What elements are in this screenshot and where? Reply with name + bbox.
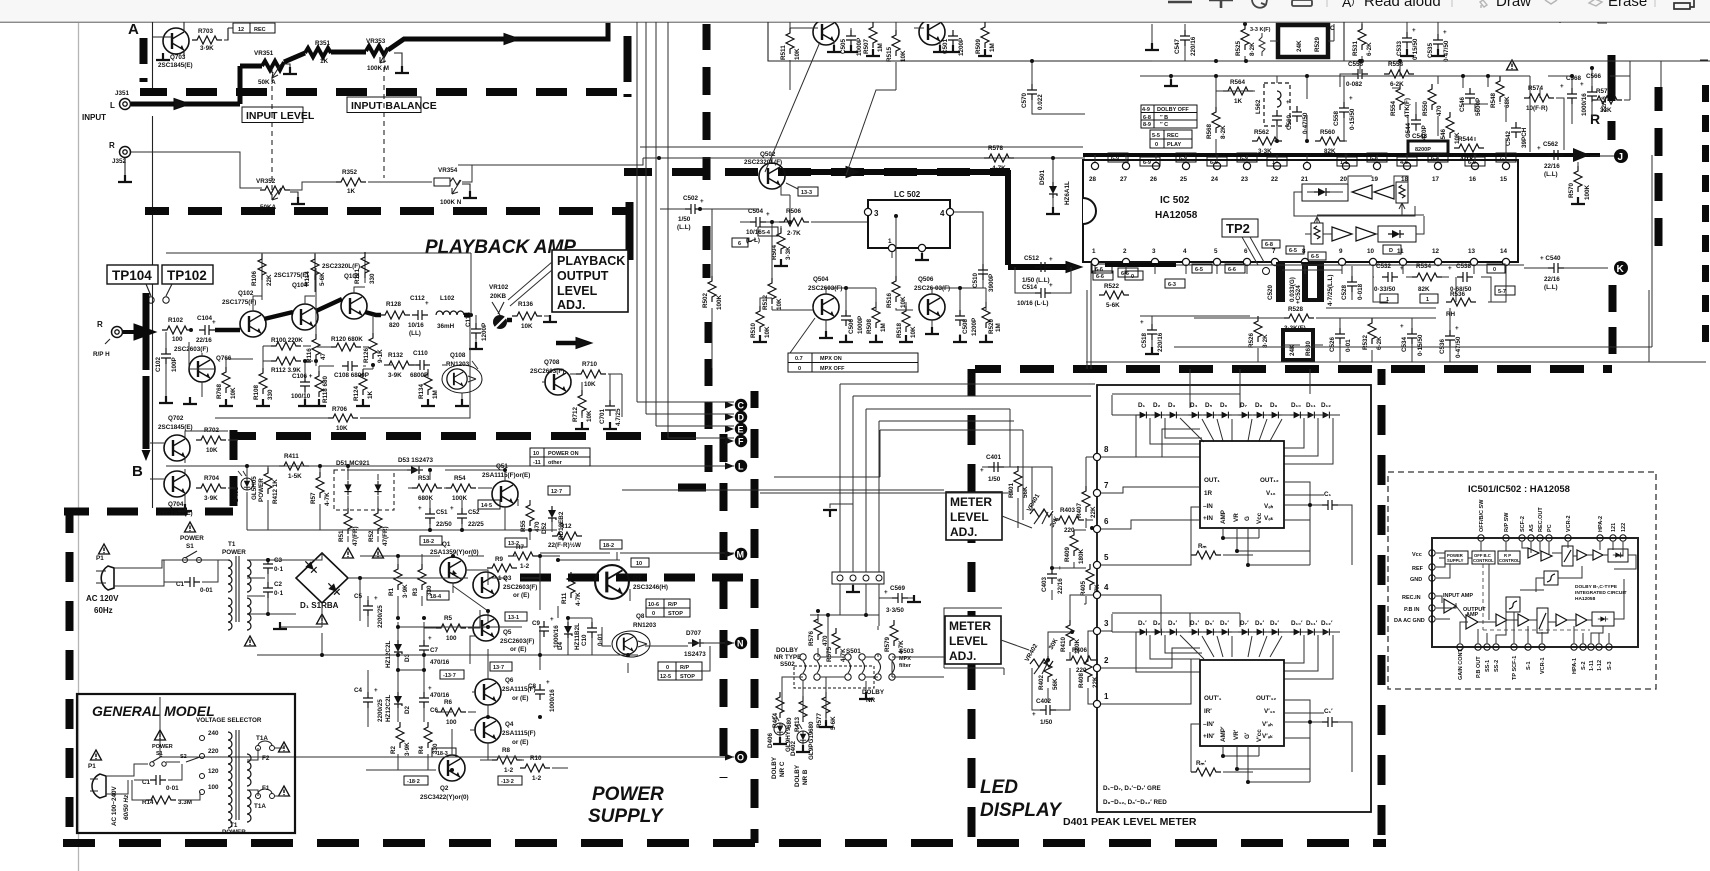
registration L mark top right: [1598, 15, 1607, 23]
resistor R544: [1454, 136, 1484, 163]
svg-text:R528: R528: [1288, 306, 1304, 313]
svg-text:J351: J351: [115, 90, 130, 97]
svg-text:Q704: Q704: [168, 501, 184, 508]
resistor R126: [363, 333, 384, 363]
wire thick signal L input: [131, 66, 262, 110]
svg-text:R/P SW: R/P SW: [1504, 512, 1510, 532]
node M: [725, 548, 747, 560]
svg-text:5: 5: [1104, 553, 1109, 562]
tag 5-7: [1495, 286, 1515, 295]
svg-text:10K: 10K: [910, 326, 917, 338]
svg-text:M: M: [737, 550, 745, 560]
svg-text:10K: 10K: [794, 48, 801, 60]
separator: [1451, 0, 1453, 7]
svg-text:VR′: VR′: [1233, 729, 1240, 740]
svg-text:-18·2: -18·2: [407, 779, 420, 785]
svg-text:Q6: Q6: [505, 677, 514, 684]
svg-text:2SC3246(H): 2SC3246(H): [633, 584, 668, 591]
resistor R118: [315, 371, 329, 403]
wire to node O: [160, 697, 734, 757]
svg-text:2: 2: [1104, 656, 1109, 665]
svg-text:R506: R506: [786, 208, 802, 215]
svg-text:+: +: [884, 589, 888, 596]
svg-text:(L.L): (L.L): [1544, 171, 1558, 178]
svg-text:METER: METER: [949, 619, 991, 633]
svg-text:IC501/IC502 : HA12058: IC501/IC502 : HA12058: [1468, 484, 1570, 495]
svg-text:1M: 1M: [989, 43, 996, 52]
svg-text:122: 122: [1621, 523, 1627, 532]
svg-text:0·1: 0·1: [274, 590, 284, 597]
wire to node N: [688, 642, 734, 644]
svg-text:IR′: IR′: [1204, 708, 1212, 715]
wire meter long leads: [622, 490, 1013, 675]
svg-text:R502: R502: [702, 292, 709, 308]
wire thick: [284, 53, 305, 62]
wire: [290, 182, 336, 190]
svg-text:7: 7: [1104, 481, 1109, 490]
svg-text:6-6: 6-6: [1095, 267, 1103, 273]
resistor R408: [1078, 656, 1099, 688]
capacitor C505: [840, 28, 863, 56]
svg-text:R10: R10: [530, 755, 542, 762]
resistor R132: [384, 352, 414, 379]
transformer T1 general: [222, 730, 251, 836]
svg-text:VR102: VR102: [489, 284, 509, 291]
svg-text:VCR-1: VCR-1: [1540, 657, 1546, 674]
svg-text:G′: G′: [1244, 732, 1251, 739]
connector strip: [832, 572, 884, 584]
svg-text:330: 330: [369, 273, 376, 284]
svg-text:C532: C532: [1376, 263, 1392, 270]
svg-text:18-4: 18-4: [430, 594, 442, 600]
svg-text:1-12: 1-12: [1597, 660, 1603, 671]
svg-text:R525: R525: [1235, 40, 1242, 56]
svg-text:9: 9: [1339, 248, 1343, 255]
svg-text:PLAY: PLAY: [1167, 142, 1181, 148]
capacitor C1 meter: [1284, 491, 1352, 565]
ground stub VR352: [290, 192, 305, 204]
svg-text:22/16: 22/16: [1544, 276, 1560, 283]
label box TP104: [107, 265, 158, 303]
wires general model: [106, 748, 284, 800]
svg-text:Vcc: Vcc: [1412, 552, 1422, 558]
potentiometer VR352: [256, 178, 290, 211]
svg-text:Q708: Q708: [544, 359, 560, 366]
svg-text:3·9K: 3·9K: [200, 45, 214, 52]
svg-text:HZ11B2L: HZ11B2L: [574, 623, 581, 650]
wires q504 q506: [760, 216, 986, 340]
svg-text:AC 100~240V: AC 100~240V: [111, 785, 118, 826]
svg-text:K: K: [1617, 264, 1625, 275]
svg-text:24K: 24K: [1296, 40, 1303, 52]
svg-text:V′₁₆: V′₁₆: [1264, 708, 1275, 715]
svg-text:10K: 10K: [776, 298, 783, 310]
svg-text:13-1: 13-1: [508, 615, 519, 621]
capacitor C546: [1459, 88, 1482, 116]
wire to right exit: [462, 165, 635, 182]
svg-text:0-01: 0-01: [200, 587, 213, 594]
svg-text:1S2473: 1S2473: [684, 651, 706, 658]
svg-text:C104: C104: [197, 315, 213, 322]
svg-text:(L·L): (L·L): [746, 237, 760, 244]
svg-text:C558: C558: [1333, 110, 1340, 126]
svg-text:TP102: TP102: [167, 268, 207, 283]
svg-text:D₁₁′: D₁₁′: [1306, 620, 1318, 627]
svg-text:0: 0: [1493, 267, 1496, 273]
svg-text:121: 121: [1611, 523, 1617, 532]
svg-text:33K: 33K: [1600, 107, 1612, 114]
resistor R536b: [1446, 291, 1476, 306]
transistor Q108 RN1203: [442, 352, 482, 393]
svg-text:120: 120: [208, 768, 219, 775]
svg-text:22(F·R)½W: 22(F·R)½W: [548, 541, 581, 549]
svg-text:2SC2603(F): 2SC2603(F): [500, 638, 534, 645]
wire R channel input: [131, 152, 262, 188]
svg-text:R52: R52: [368, 530, 375, 542]
svg-text:R710: R710: [582, 361, 598, 368]
dashed border: far right edge x1705: [1702, 85, 1709, 350]
svg-text:NR C: NR C: [779, 761, 786, 777]
resistor R116: [306, 334, 327, 363]
svg-text:R526: R526: [1248, 332, 1255, 348]
svg-text:G: G: [1244, 516, 1251, 521]
label box METER LEVEL ADJ 1: [946, 492, 1032, 540]
svg-text:0·1: 0·1: [274, 566, 284, 573]
svg-text:HA12058: HA12058: [1155, 210, 1198, 221]
svg-text:Q102: Q102: [238, 290, 254, 297]
capacitor C556: [1346, 61, 1368, 88]
svg-text:HPA-1: HPA-1: [1572, 658, 1578, 674]
inset bottom amp triangles: [1496, 608, 1614, 633]
svg-text:S503: S503: [899, 648, 914, 655]
capacitor C108: [334, 361, 369, 379]
svg-text:Q703: Q703: [170, 54, 186, 61]
wires into led box top: [1087, 262, 1340, 632]
fit page icon: [1292, 0, 1312, 6]
resistor R704: [196, 475, 226, 502]
junction dots forest: [1358, 59, 1362, 63]
svg-text:INPUT: INPUT: [82, 113, 106, 122]
svg-text:C110: C110: [413, 350, 428, 357]
svg-text:8-2K: 8-2K: [1220, 125, 1227, 139]
inset off bc control block: [1472, 551, 1495, 564]
node C: [725, 399, 747, 411]
dashed border: power supply y511: [64, 508, 233, 516]
svg-text:R412 1K: R412 1K: [272, 479, 279, 504]
top rail playback: [166, 253, 471, 313]
tag 6-6: [1225, 264, 1245, 273]
wire bus lines y147 y158: [458, 147, 1085, 165]
svg-text:10K: 10K: [336, 425, 348, 432]
resistor R518: [896, 306, 917, 338]
svg-text:C8: C8: [528, 683, 537, 690]
wires meter2: [1032, 595, 1098, 710]
svg-text:1M: 1M: [432, 390, 439, 399]
svg-text:R5: R5: [444, 615, 453, 622]
tag 0 right: [1487, 264, 1505, 273]
capacitor C114: [465, 312, 488, 349]
svg-text:D402: D402: [790, 740, 797, 756]
resistor R413: [794, 696, 815, 732]
svg-text:R578: R578: [988, 145, 1004, 152]
svg-text:D₁~D₇, D₁′~D₇′ GRE: D₁~D₇, D₁′~D₇′ GRE: [1103, 785, 1161, 792]
svg-text:D4: D4: [557, 641, 564, 650]
dark box 24K R630: [1283, 330, 1313, 360]
svg-text:10-6: 10-6: [648, 602, 659, 608]
svg-text:680: 680: [808, 721, 815, 732]
dashed border: power supply top y436: [233, 432, 706, 440]
capacitor C52: [450, 505, 484, 528]
wire thick out arrow: [464, 315, 592, 349]
potentiometer VR401: [1026, 492, 1061, 529]
svg-text:S-1: S-1: [1526, 661, 1532, 670]
svg-text:5-7: 5-7: [1498, 289, 1506, 295]
svg-text:V₁₆: V₁₆: [1266, 490, 1276, 497]
svg-text:1/50: 1/50: [678, 216, 691, 223]
svg-text:Q506: Q506: [918, 276, 934, 283]
svg-text:LEVEL: LEVEL: [950, 510, 989, 524]
svg-text:C520: C520: [1267, 284, 1274, 300]
svg-text:12: 12: [1432, 248, 1440, 255]
svg-text:180K: 180K: [1078, 548, 1085, 564]
svg-text:100: 100: [446, 635, 457, 642]
capacitor C401: [980, 454, 1018, 483]
capacitor C5: [354, 593, 384, 628]
resistor R574b: [1524, 85, 1554, 112]
svg-text:R120 680K: R120 680K: [331, 336, 363, 343]
svg-text:7: 7: [1272, 248, 1276, 255]
svg-text:LEVEL: LEVEL: [557, 284, 598, 298]
wire: [368, 181, 432, 183]
capacitor C502: [677, 195, 704, 231]
capacitor C9: [532, 616, 560, 648]
resistor R106: [251, 254, 273, 286]
svg-text:GL5H05: GL5H05: [251, 476, 258, 500]
jack J351 input L: [110, 90, 131, 110]
svg-text:R577: R577: [816, 712, 823, 728]
svg-text:C403: C403: [1041, 576, 1048, 592]
svg-text:AMP: AMP: [1466, 612, 1479, 618]
svg-text:D₁₂: D₁₂: [1321, 402, 1331, 409]
svg-text:S-2: S-2: [1581, 661, 1587, 670]
wire thick K bus under IC: [1105, 263, 1176, 267]
svg-text:D₃′: D₃′: [1168, 620, 1177, 627]
svg-text:22K: 22K: [266, 274, 273, 286]
capacitor C4: [354, 687, 384, 722]
oscillator transistor Q510: [914, 15, 945, 49]
svg-text:1-11: 1-11: [1589, 660, 1595, 671]
svg-text:RH: RH: [1446, 311, 1456, 318]
svg-text:1K: 1K: [1234, 98, 1243, 105]
svg-text:10/16: 10/16: [408, 322, 424, 329]
resistor R576: [808, 614, 829, 646]
dashed border: bottom y843: [63, 839, 1386, 847]
tag 13-2: [505, 538, 527, 547]
zoom-out icon: [1168, 1, 1192, 4]
junction dots dolby: [826, 613, 830, 617]
svg-text:F1: F1: [262, 785, 270, 792]
svg-text:F2: F2: [262, 755, 270, 762]
svg-text:D₁: D₁: [1138, 402, 1146, 409]
svg-text:R53: R53: [418, 475, 430, 482]
svg-text:POWER: POWER: [152, 744, 173, 750]
resistor R114: [304, 254, 326, 286]
svg-text:R51: R51: [338, 530, 345, 542]
svg-text:6-6: 6-6: [1228, 267, 1236, 273]
svg-text:C52: C52: [468, 509, 480, 516]
svg-text:REC.IN: REC.IN: [1402, 595, 1421, 601]
tag 6-6 b: [1118, 268, 1138, 277]
svg-text:D₈: D₈: [1255, 402, 1263, 409]
label box INPUT LEVEL: [242, 107, 315, 123]
svg-text:C2: C2: [274, 581, 283, 588]
ground stub VR354: [462, 184, 477, 198]
R/P head jack: [93, 320, 123, 358]
svg-text:+: +: [1049, 282, 1053, 289]
potentiometer VR353: [366, 38, 389, 72]
svg-text:D₆′: D₆′: [1220, 620, 1229, 627]
svg-text:0-15/50: 0-15/50: [1349, 108, 1356, 130]
svg-text:+: +: [700, 198, 704, 205]
svg-text:RN1203: RN1203: [446, 361, 470, 368]
svg-text:12: 12: [238, 27, 244, 33]
inductor L562 dashed box: [1255, 83, 1290, 126]
svg-text:E: E: [738, 425, 744, 435]
svg-text:HPA-2: HPA-2: [1598, 516, 1604, 532]
svg-text:D₃: D₃: [1168, 402, 1176, 409]
svg-text:C528: C528: [1341, 284, 1348, 300]
svg-text:VCR-2: VCR-2: [1566, 515, 1572, 532]
svg-text:D52: D52: [541, 522, 548, 534]
svg-text:GAIN CONT.: GAIN CONT.: [1458, 648, 1464, 680]
svg-text:V′ₔₕ: V′ₔₕ: [1262, 721, 1273, 728]
svg-text:OUT′₁₂: OUT′₁₂: [1256, 695, 1276, 702]
resistor R136: [512, 301, 557, 330]
resistor R410: [1060, 620, 1081, 654]
svg-text:J352: J352: [112, 158, 127, 165]
switch S502: [780, 654, 820, 680]
svg-text:1: 1: [1272, 160, 1275, 166]
label box TP2: [1222, 219, 1270, 275]
tag 13-7: [490, 662, 512, 671]
svg-text:10/16 (L·L): 10/16 (L·L): [1017, 300, 1049, 307]
dashed border: middle vertical x706 upper: [703, 24, 711, 180]
svg-text:22K: 22K: [1090, 506, 1097, 518]
svg-text:Vcc: Vcc: [1256, 512, 1263, 524]
svg-text:R57: R57: [310, 492, 317, 504]
svg-text:18-2: 18-2: [423, 539, 434, 545]
resistor R8: [492, 747, 522, 774]
svg-text:R706: R706: [332, 406, 348, 413]
svg-text:3·9K: 3·9K: [204, 495, 218, 502]
svg-text:D₁ S1RBA: D₁ S1RBA: [300, 601, 339, 610]
svg-text:R572: R572: [1596, 88, 1612, 95]
table POWER ON/OFF: [530, 448, 590, 466]
svg-text:R351: R351: [315, 40, 331, 47]
ground bridge: [273, 622, 322, 629]
svg-text:L: L: [110, 101, 115, 110]
resistor R509: [975, 22, 996, 56]
svg-text:6: 6: [1104, 517, 1109, 526]
dashed border: middle vertical x708 lower: [705, 322, 713, 480]
jack J352 input R: [109, 141, 131, 165]
dashed border: top-left block left edge: [140, 38, 148, 82]
svg-text:R102: R102: [168, 317, 184, 324]
svg-text:Read aloud: Read aloud: [1364, 0, 1441, 10]
svg-text:100: 100: [172, 336, 183, 343]
svg-text:4-9: 4-9: [1142, 107, 1150, 113]
svg-text:S1: S1: [186, 543, 194, 550]
svg-text:MPX ON: MPX ON: [820, 356, 842, 362]
resistor R51: [338, 508, 359, 546]
wire C502 to Q502: [660, 208, 759, 210]
svg-text:DOLBY OFF: DOLBY OFF: [1157, 107, 1189, 113]
svg-text:1/50: 1/50: [1040, 719, 1053, 726]
svg-text:20KB: 20KB: [490, 293, 507, 300]
tag 13-1: [505, 612, 527, 621]
resistor R54: [446, 475, 476, 502]
svg-text:0.022: 0.022: [1037, 94, 1044, 110]
wires meter ic2: [1101, 595, 1324, 782]
ground under J352: [118, 158, 132, 182]
resistor R411: [279, 453, 309, 480]
svg-text:8200P: 8200P: [1415, 147, 1431, 153]
svg-text:INPUT LEVEL: INPUT LEVEL: [246, 110, 315, 122]
svg-text:1-1: 1-1: [1340, 160, 1348, 166]
svg-text:REC.OUT: REC.OUT: [1538, 507, 1544, 532]
svg-text:N: N: [737, 639, 744, 649]
inductor L102: [436, 295, 464, 330]
LED display outer box: [1097, 385, 1371, 812]
svg-text:HZ6A1L: HZ6A1L: [1064, 181, 1071, 205]
svg-text:R564: R564: [1230, 79, 1246, 86]
svg-text:4-TK: 4-TK: [1460, 156, 1474, 163]
label box TP102: [162, 265, 213, 303]
svg-text:+C524: +C524: [1295, 285, 1302, 304]
svg-text:D₅: D₅: [1205, 402, 1213, 409]
svg-text:+: +: [374, 595, 378, 602]
separator: [1654, 0, 1656, 7]
resistor R414: [772, 692, 793, 728]
svg-text:C562: C562: [1543, 141, 1559, 148]
resistor R405: [1080, 564, 1101, 598]
svg-text:D₄′: D₄′: [1190, 620, 1200, 627]
dashed border: input row bottom y211: [145, 207, 627, 215]
wires playback bias network: [189, 268, 622, 426]
svg-text:3: 3: [1152, 248, 1156, 255]
inset s-curve box top: [1544, 571, 1558, 585]
svg-text:C₁: C₁: [1324, 491, 1332, 498]
svg-text:LC 502: LC 502: [894, 190, 921, 199]
zener D4 HZ11B2L: [557, 622, 581, 650]
capacitor C560: [1286, 99, 1309, 134]
resistor R515: [886, 22, 907, 90]
resistor R572: [1592, 88, 1622, 114]
zener D2 HZ12C2L: [385, 692, 411, 722]
svg-text:R108: R108: [253, 384, 260, 400]
capacitor C569: [879, 584, 921, 614]
resistor RAp: [1191, 760, 1253, 776]
node J: [1590, 149, 1628, 163]
svg-text:C9: C9: [532, 620, 541, 627]
capacitor C102: [155, 332, 178, 400]
svg-text:6: 6: [1244, 248, 1248, 255]
svg-text:INPUT BALANCE: INPUT BALANCE: [351, 100, 437, 112]
svg-text:+: +: [1049, 256, 1053, 263]
svg-text:+IN: +IN: [1203, 515, 1213, 522]
svg-text:2SC2320L(F): 2SC2320L(F): [744, 159, 782, 166]
svg-text:R2: R2: [390, 745, 397, 754]
